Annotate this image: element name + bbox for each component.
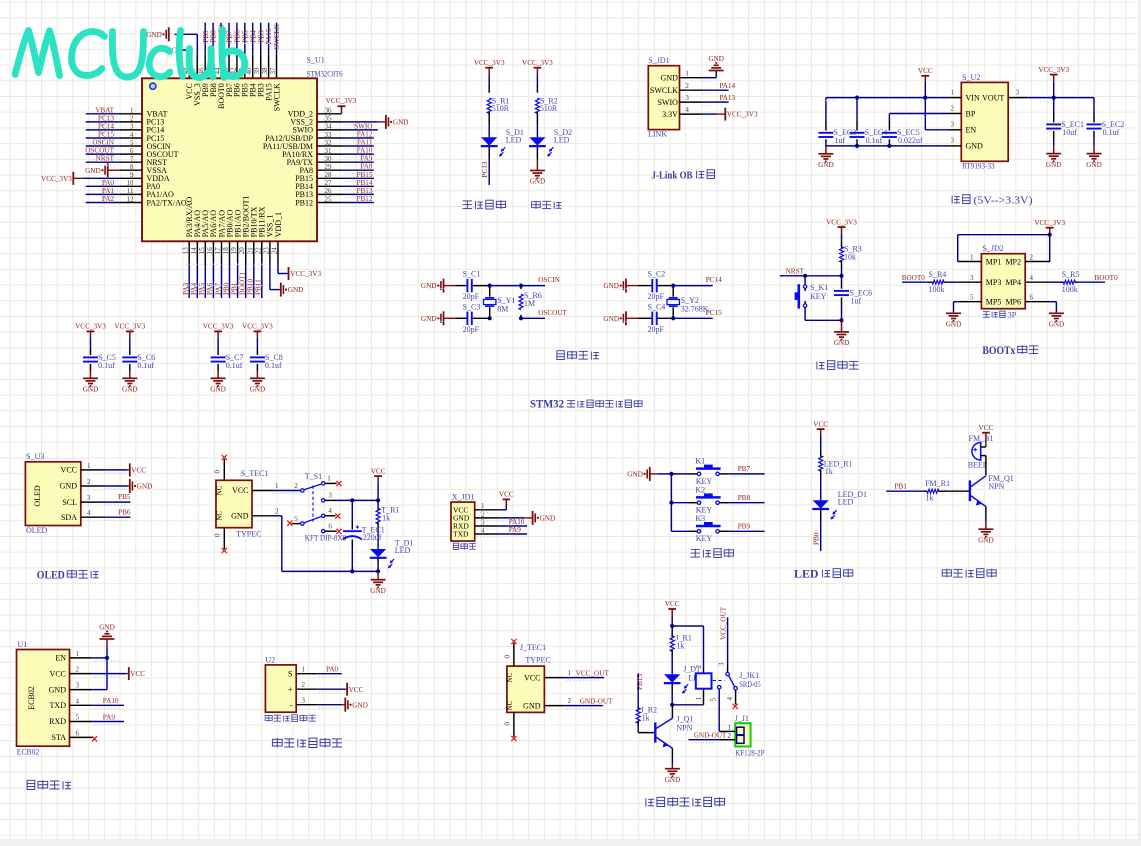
- wire JD1 pin1 to GND: [703, 77, 717, 79]
- svg-text:4: 4: [685, 106, 689, 114]
- J_J1 pin1 stub: [720, 730, 735, 732]
- svg-text:PB0: PB0: [222, 282, 230, 295]
- junction: [839, 274, 843, 278]
- U1 left pin 4 stub: [119, 137, 142, 139]
- svg-text:13: 13: [182, 247, 190, 255]
- junction: [105, 656, 109, 660]
- wire net PB4: [252, 23, 254, 55]
- wire VOUT bus: [1027, 97, 1094, 99]
- pushbutton S_K1 KEY: [803, 285, 806, 288]
- wire S_D1 to PC13: [488, 146, 490, 159]
- no connect X (STA): [92, 736, 97, 741]
- power port VCC_3V3 (VDD_2 pin36): [341, 106, 343, 114]
- no connect X (top): [222, 455, 227, 460]
- junction: [923, 96, 927, 100]
- wire net PA1 (pin11): [86, 193, 120, 195]
- svg-text:S_U3: S_U3: [26, 452, 44, 461]
- wire gnd bus: [826, 145, 948, 147]
- power port GND (TypeC): [371, 579, 386, 581]
- power port VCC (top of U1): [177, 46, 179, 55]
- svg-text:-: -: [290, 700, 293, 709]
- svg-text:220uf: 220uf: [363, 533, 382, 542]
- svg-text:6: 6: [130, 147, 134, 155]
- svg-text:PA4: PA4: [190, 282, 198, 295]
- wire J_R2 to base: [637, 727, 639, 733]
- wire junction down to pin3: [106, 658, 108, 690]
- U1 left pin 12 stub: [119, 202, 142, 204]
- svg-text:FM_R1: FM_R1: [925, 479, 950, 488]
- resistor J_R2 1k: [636, 708, 640, 723]
- svg-text:VBAT: VBAT: [95, 106, 114, 114]
- svg-text:30: 30: [325, 155, 333, 163]
- wire S_C5 bottom: [90, 364, 92, 371]
- svg-text:4: 4: [1030, 274, 1034, 282]
- svg-text:3: 3: [328, 492, 332, 500]
- svg-text:1: 1: [728, 723, 732, 731]
- svg-text:K2: K2: [695, 485, 705, 494]
- svg-text:GND: GND: [665, 776, 681, 784]
- svg-text:34: 34: [325, 123, 333, 131]
- J_TEC1 bottom pin: [513, 712, 515, 737]
- junction: [671, 284, 675, 288]
- svg-text:PB14: PB14: [357, 179, 373, 187]
- wire S_C6 bottom: [129, 364, 131, 371]
- U1 right pin 28 stub: [317, 177, 342, 179]
- wire S_C7 bottom: [217, 364, 219, 371]
- wire net PB13 (pin26): [342, 193, 374, 195]
- wire cap-junction row1: [472, 285, 490, 287]
- U1 bottom pin 19 stub: [237, 241, 239, 263]
- LED S_D1: [481, 137, 497, 145]
- svg-text:3.3V: 3.3V: [662, 110, 678, 119]
- svg-text:K1: K1: [695, 457, 705, 466]
- wire pin2 route: [272, 515, 282, 517]
- U1(BT) pin 2 stub: [70, 673, 93, 675]
- wire net PA15: [268, 23, 270, 55]
- U1 right pin 35 stub: [317, 121, 342, 123]
- svg-text:1: 1: [970, 253, 974, 261]
- junction: [887, 144, 891, 148]
- svg-text:KF128-2P: KF128-2P: [735, 749, 765, 758]
- wire net PB0 (pin18): [229, 263, 231, 298]
- LED LED_D1: [813, 500, 829, 508]
- wire net PA4 (pin14): [196, 263, 198, 298]
- svg-text:+: +: [288, 685, 293, 694]
- svg-text:EN: EN: [55, 654, 66, 663]
- wire net PB8: [212, 23, 214, 55]
- pushbutton K1 KEY: [697, 472, 700, 475]
- svg-text:VCC_3V3: VCC_3V3: [727, 111, 758, 119]
- svg-text:GND: GND: [210, 386, 226, 394]
- svg-text:S_U2: S_U2: [962, 73, 980, 82]
- svg-text:26: 26: [325, 187, 333, 195]
- wire net PB9: [729, 530, 765, 532]
- svg-text:GND: GND: [370, 587, 386, 595]
- power port GND (S_EC2): [1087, 153, 1102, 155]
- svg-text:PB12: PB12: [357, 195, 373, 203]
- svg-text:GND: GND: [818, 161, 834, 169]
- S_TEC1 pin1 stub: [252, 490, 272, 492]
- svg-text:BEEP: BEEP: [968, 460, 988, 469]
- svg-text:PB8: PB8: [210, 30, 218, 43]
- S_U3 pin 3 stub: [81, 501, 102, 503]
- U1 bottom pin 22 stub: [261, 241, 263, 263]
- wire J_R1 to LED: [671, 657, 673, 675]
- capacitor S_EC2 0.1uf: [1087, 123, 1102, 125]
- wire net PA2 (pin12): [86, 202, 120, 204]
- wire pin6 to GND: [1050, 301, 1056, 303]
- X_JD1 comment 下载口: [453, 543, 458, 549]
- wire cap S_EC3 top: [825, 98, 827, 121]
- buzzer FM_B1: [972, 443, 981, 461]
- wire JD1 pin1 to VCC: [499, 509, 506, 511]
- svg-text:4: 4: [328, 507, 332, 515]
- svg-text:3: 3: [87, 494, 91, 502]
- wire net PC15 (pin4): [86, 137, 120, 139]
- S_JD2 right pin 6 stub: [1025, 301, 1050, 303]
- J_TEC1 pin2 stub: [544, 705, 564, 707]
- svg-text:1k: 1k: [676, 642, 684, 651]
- svg-text:GND: GND: [946, 321, 962, 329]
- svg-text:MP3: MP3: [986, 278, 1002, 287]
- wire S_C8 bottom: [256, 364, 258, 371]
- svg-text:STA: STA: [52, 733, 67, 742]
- J_TEC1 top pin: [513, 643, 515, 666]
- wire VCC to pin48: [180, 49, 190, 51]
- power port GND (X_JD1): [532, 511, 534, 525]
- junction: [670, 703, 674, 707]
- wire cap S_EC4 top: [856, 98, 858, 121]
- capacitor S_EC5 0.022uf: [882, 132, 897, 134]
- wire gnd-cap row2: [626, 317, 638, 319]
- power port VCC_3V3 (JD2): [1046, 227, 1054, 229]
- svg-text:U2: U2: [265, 655, 275, 664]
- svg-text:PA2: PA2: [102, 195, 115, 203]
- U1 top pin 48 stub: [188, 55, 190, 79]
- svg-text:VCC_3V3: VCC_3V3: [1034, 219, 1065, 227]
- power port GND (JD2 pin6): [1049, 312, 1064, 314]
- svg-text:MP2: MP2: [1005, 257, 1021, 266]
- wire cap-junction row1: [657, 285, 674, 287]
- svg-text:3: 3: [130, 123, 134, 131]
- wire net BOOT1 (pin20): [245, 263, 247, 298]
- svg-text:VCC: VCC: [349, 686, 364, 694]
- wire S_C7 top: [217, 338, 219, 348]
- wire net OSCIN (pin5): [86, 145, 120, 147]
- title 复位电路: [816, 362, 818, 370]
- svg-text:STM32C8T6: STM32C8T6: [307, 69, 343, 78]
- crystal S_Y2 32.768K: [672, 286, 674, 297]
- svg-text:GND: GND: [146, 31, 162, 39]
- wire BP branch: [889, 113, 948, 115]
- S_U2 pin3 stub: [948, 129, 961, 131]
- svg-text:VCC: VCC: [232, 486, 248, 495]
- wire VIN bus: [826, 97, 948, 99]
- wire gnd-cap row1: [626, 285, 638, 287]
- svg-text:0: 0: [504, 722, 512, 726]
- svg-text:VIN: VIN: [966, 93, 980, 102]
- relay NO contact: [734, 687, 737, 690]
- wire net PB7: [228, 23, 230, 55]
- svg-text:VCC_3V3: VCC_3V3: [326, 97, 357, 105]
- power port GND above (earth up): [709, 70, 724, 72]
- svg-text:MP5: MP5: [986, 298, 1002, 307]
- svg-text:FM_B1: FM_B1: [969, 434, 994, 443]
- svg-text:S_C2: S_C2: [648, 270, 666, 279]
- wire to GND (TypeC): [377, 571, 379, 579]
- svg-text:LINK: LINK: [648, 130, 667, 139]
- svg-text:MP6: MP6: [1005, 298, 1021, 307]
- power port VCC_3V3 (R2 top): [534, 67, 542, 69]
- wire S_C6 top: [129, 338, 131, 348]
- svg-text:S_C1: S_C1: [463, 270, 481, 279]
- svg-text:VCC_3V3: VCC_3V3: [41, 175, 72, 183]
- no connect X (contact1): [336, 481, 341, 486]
- svg-text:X_JD1: X_JD1: [452, 493, 475, 502]
- U1 right pin 33 stub: [317, 137, 342, 139]
- junction: [669, 472, 673, 476]
- svg-text:3: 3: [1016, 88, 1020, 96]
- svg-text:PB8: PB8: [738, 494, 751, 502]
- svg-text:PC14: PC14: [98, 122, 114, 130]
- wire net PA10 (X_JD1): [499, 525, 527, 527]
- no connect X (contact5): [287, 521, 292, 526]
- svg-text:OLED: OLED: [37, 570, 65, 582]
- wire cap-junction row2: [657, 317, 674, 319]
- svg-text:32.768K: 32.768K: [681, 305, 709, 314]
- power port VCC (U2): [346, 683, 348, 696]
- svg-text:VCC_3V3: VCC_3V3: [474, 59, 505, 67]
- svg-text:PB5: PB5: [118, 493, 131, 501]
- svg-text:2: 2: [87, 478, 91, 486]
- svg-text:RXD: RXD: [49, 717, 66, 726]
- wire cap-junction row2: [472, 317, 490, 319]
- svg-text:TXD: TXD: [453, 530, 469, 539]
- wire VCC down: [924, 82, 926, 98]
- no connect X (bottom): [222, 548, 227, 553]
- wire net PB14 (pin27): [342, 185, 374, 187]
- wire net PA14: [703, 89, 729, 91]
- svg-text:S_C3: S_C3: [463, 302, 481, 311]
- svg-text:S_U1: S_U1: [307, 56, 325, 65]
- svg-text:1: 1: [130, 107, 134, 115]
- resistor S_R4 100k: [932, 280, 944, 284]
- svg-text:5: 5: [130, 139, 134, 147]
- U1 bottom pin 23 stub: [269, 241, 271, 263]
- svg-text:3: 3: [76, 682, 80, 690]
- svg-text:1k: 1k: [825, 467, 833, 476]
- U1 bottom pin 20 stub: [245, 241, 247, 263]
- svg-text:NRST: NRST: [96, 155, 115, 163]
- svg-text:100k: 100k: [1062, 285, 1078, 294]
- svg-text:0.1uf: 0.1uf: [226, 361, 243, 370]
- svg-text:VCC: VCC: [499, 491, 514, 499]
- power port VCC_3V3 (S_C5): [87, 330, 95, 332]
- svg-text:J_JK1: J_JK1: [739, 671, 759, 680]
- svg-text:PA14: PA14: [719, 82, 735, 90]
- svg-text:PB15: PB15: [357, 171, 373, 179]
- wire net PA6 (pin16): [212, 263, 214, 298]
- U1 left pin 7 stub: [119, 161, 142, 163]
- wire net PC14 (pin3): [86, 129, 120, 131]
- resistor LED_R1 1k: [819, 456, 823, 472]
- svg-text:1: 1: [481, 502, 485, 510]
- U1 right pin 36 stub: [317, 113, 342, 115]
- junction: [855, 144, 859, 148]
- svg-text:VCC: VCC: [665, 600, 680, 608]
- switch T_S1 contact 2: [301, 489, 304, 492]
- wire VCC down (TypeC): [377, 483, 379, 501]
- capacitor S_C5 0.1uf: [83, 356, 98, 358]
- power port GND (top of U1): [168, 27, 170, 41]
- svg-text:J_Q1: J_Q1: [676, 714, 693, 723]
- power port GND (S_EC1): [1046, 153, 1061, 155]
- svg-text:8: 8: [130, 163, 134, 171]
- capacitor S_EC4 0.1uf: [850, 132, 865, 134]
- wire to T_R1: [377, 500, 379, 505]
- svg-text:3: 3: [951, 121, 955, 129]
- wire net PA10 (pin31): [342, 153, 374, 155]
- svg-text:OSCOUT: OSCOUT: [538, 309, 567, 317]
- junction: [376, 569, 380, 573]
- svg-text:BP: BP: [966, 109, 976, 118]
- wire net PA9 (BT): [92, 721, 124, 723]
- wire cap S_EC1 to GND: [1053, 131, 1055, 138]
- wire bottom bus (TypeC): [282, 570, 378, 572]
- capacitor S_C2 20pF: [651, 279, 653, 292]
- wire row1 to resistor node: [490, 285, 521, 287]
- svg-text:VCC_3V3: VCC_3V3: [826, 218, 857, 226]
- wire GND to VSS_3 pin47: [175, 33, 198, 35]
- U2 pin 3 stub: [296, 704, 317, 706]
- svg-text:PA15: PA15: [265, 28, 273, 44]
- svg-text:TYPEC: TYPEC: [525, 656, 550, 665]
- svg-text:21: 21: [246, 247, 254, 255]
- svg-text:4: 4: [130, 131, 134, 139]
- svg-text:39: 39: [253, 67, 261, 75]
- wire EC6 mid: [841, 276, 843, 282]
- svg-text:S_JD2: S_JD2: [982, 244, 1003, 253]
- svg-text:VCC_3V3: VCC_3V3: [1038, 66, 1069, 74]
- transistor FM_Q1 NPN: [969, 480, 971, 501]
- pushbutton K3 KEY: [697, 530, 700, 533]
- wire S_C8 top: [256, 338, 258, 348]
- wire cap S_EC5 top: [888, 114, 890, 122]
- power port GND (keys): [649, 467, 651, 481]
- U1 top pin 38 stub: [268, 55, 270, 79]
- wire net PB15 (pin28): [342, 177, 374, 179]
- svg-text:VCC_3V3: VCC_3V3: [290, 270, 321, 278]
- wire BOOT0 right: [1079, 281, 1105, 283]
- svg-text:GND: GND: [966, 142, 984, 151]
- wire cap S_EC4 bottom: [856, 139, 858, 141]
- module U1 body: [17, 650, 70, 747]
- svg-text:VCC: VCC: [813, 420, 828, 428]
- svg-text:GND: GND: [1046, 161, 1062, 169]
- svg-text:PB12: PB12: [295, 198, 313, 207]
- wire coil bottom link: [672, 704, 703, 706]
- S_U2 pin1 stub: [948, 97, 961, 99]
- wire LED top: [820, 436, 822, 450]
- S_JD1 pin 1 stub: [680, 77, 703, 79]
- wire net PC14: [673, 285, 713, 287]
- wire net PA9 (pin30): [342, 161, 374, 163]
- power port VCC (relay): [668, 608, 676, 610]
- S_JD2 right pin 4 stub: [1025, 281, 1050, 283]
- power port VCC_3V3 (VDDA pin9): [83, 177, 120, 179]
- wire net PA0 (pin10): [86, 185, 120, 187]
- relay link dashed: [713, 680, 725, 682]
- svg-text:38: 38: [261, 67, 269, 75]
- junction: [671, 316, 675, 320]
- svg-text:3: 3: [302, 697, 306, 705]
- svg-text:EN: EN: [966, 126, 977, 135]
- svg-text:VCC_OUT: VCC_OUT: [576, 669, 610, 677]
- wire R2 mid: [536, 125, 538, 138]
- svg-text:K3: K3: [695, 514, 705, 523]
- svg-text:KFT DIP-8X8: KFT DIP-8X8: [305, 534, 346, 543]
- svg-text:PA0: PA0: [326, 666, 339, 674]
- wire BOOT0 left: [902, 281, 929, 283]
- svg-text:GND: GND: [250, 386, 266, 394]
- svg-text:LED: LED: [794, 569, 819, 581]
- capacitor T_EC1 220uf: [343, 530, 362, 532]
- svg-text:28: 28: [325, 171, 333, 179]
- svg-text:LED: LED: [554, 135, 570, 144]
- wire net PB1 (pin19): [237, 263, 239, 298]
- power port VCC_3V3 (JD1): [724, 108, 726, 121]
- wire contact3 to VCC line: [337, 499, 379, 501]
- wire net PB11 (pin22): [261, 263, 263, 298]
- svg-text:1: 1: [568, 669, 572, 677]
- svg-text:3: 3: [718, 662, 726, 666]
- power port VCC (buzzer): [982, 432, 990, 434]
- svg-text:PA13: PA13: [719, 94, 735, 102]
- wire collector (J_Q1): [671, 705, 673, 719]
- wire EN branch: [924, 98, 926, 130]
- wire cap S_EC3 bottom: [825, 139, 827, 141]
- U2 comment 土壤湿度检测: [265, 716, 272, 721]
- svg-text:PA9: PA9: [360, 155, 373, 163]
- U1 top pin 40 stub: [252, 55, 254, 79]
- U1 right pin 29 stub: [317, 169, 342, 171]
- wire LED mid: [820, 477, 822, 500]
- wire R1 mid: [488, 125, 490, 138]
- power port VCC (LED): [817, 428, 825, 430]
- wire EC6 bottom: [841, 297, 843, 304]
- svg-text:10: 10: [127, 179, 135, 187]
- svg-text:18: 18: [222, 247, 230, 255]
- svg-text:10k: 10k: [844, 252, 856, 261]
- wire VCC (BT): [92, 673, 126, 675]
- S_TEC1 bottom pin: [223, 528, 225, 549]
- resistor T_R1 1k: [376, 508, 380, 524]
- svg-text:3P: 3P: [1008, 311, 1017, 320]
- power port VCC_3V3 (R1 top): [485, 67, 493, 69]
- svg-text:32: 32: [325, 139, 333, 147]
- svg-text:10uf: 10uf: [1062, 128, 1077, 137]
- svg-text:S_R5: S_R5: [1062, 270, 1080, 279]
- U1 left pin 9 stub: [119, 177, 142, 179]
- wire net PA7 (pin17): [221, 263, 223, 298]
- U1 left pin 10 stub: [119, 185, 142, 187]
- junction: [839, 318, 843, 322]
- U1 bottom pin 24 stub: [277, 241, 279, 263]
- svg-text:0.1uf: 0.1uf: [137, 361, 154, 370]
- svg-text:MP1: MP1: [986, 257, 1002, 266]
- svg-text:PA0: PA0: [102, 179, 115, 187]
- svg-text:J-Link OB: J-Link OB: [652, 170, 694, 182]
